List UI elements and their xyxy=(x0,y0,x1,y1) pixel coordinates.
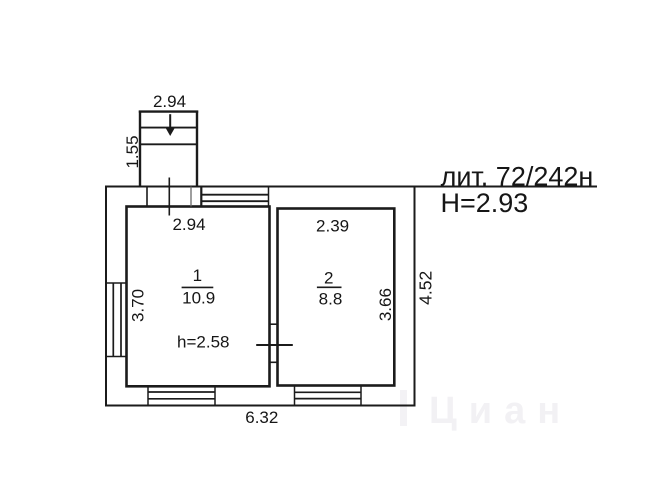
dimension 2.94 (room 1 width) xyxy=(172,215,205,234)
svg-text:8.8: 8.8 xyxy=(319,290,343,309)
window W3 in bottom wall under room 1: side edges xyxy=(148,386,215,405)
svg-text:2.94: 2.94 xyxy=(172,215,205,234)
svg-text:2.39: 2.39 xyxy=(316,216,349,235)
room 1 fraction line xyxy=(182,286,214,288)
window W4 in bottom wall under room 2: side edges xyxy=(295,386,362,406)
dimension 6.32 (building width) xyxy=(245,408,278,427)
room 2 number xyxy=(324,269,333,288)
outer wall top line with title underline extension xyxy=(105,186,597,188)
svg-text:Циан: Циан xyxy=(429,390,572,432)
entry direction arrow xyxy=(166,114,175,136)
title: ceiling height H=2.93 xyxy=(441,188,529,218)
svg-text:10.9: 10.9 xyxy=(182,288,215,307)
outer wall left xyxy=(105,186,107,407)
porch top wall xyxy=(139,110,198,112)
svg-text:2.94: 2.94 xyxy=(153,92,186,111)
porch left wall xyxy=(139,111,141,187)
interior door opening in partition: jamb tick top xyxy=(270,323,278,325)
room 2 walls xyxy=(278,209,395,386)
svg-text:h=2.58: h=2.58 xyxy=(177,333,229,352)
dimension 1.55 (porch depth, rotated) xyxy=(123,135,142,168)
svg-text:4.52: 4.52 xyxy=(416,271,436,305)
porch right wall xyxy=(196,111,198,187)
svg-text:1: 1 xyxy=(193,266,202,285)
dimension 4.52 (building depth, rotated) xyxy=(416,271,436,305)
window W1 in top wall: left edge xyxy=(200,187,202,207)
window W1 in top wall: right edge xyxy=(268,187,270,207)
interior door opening in partition: jamb tick bottom xyxy=(270,361,278,363)
svg-text:1.55: 1.55 xyxy=(123,135,142,168)
window W2 in left wall: top edge xyxy=(106,282,126,284)
svg-text:3.70: 3.70 xyxy=(129,289,148,322)
room 2 area 8.8 xyxy=(319,290,343,309)
window W2 in left wall: bottom edge xyxy=(106,356,126,358)
room 1 area 10.9 xyxy=(182,288,215,307)
svg-text:Н=2.93: Н=2.93 xyxy=(441,188,529,218)
outer wall bottom xyxy=(105,405,416,407)
window W2 in left wall: glazing lines xyxy=(113,283,121,357)
watermark Cian xyxy=(429,390,572,432)
entrance door opening line across top wall xyxy=(168,178,170,216)
window W3 glazing lines xyxy=(148,392,215,399)
room 1 height note h=2.58 xyxy=(177,333,229,352)
svg-text:2: 2 xyxy=(324,269,333,288)
watermark logo bar xyxy=(400,390,407,426)
outer wall right xyxy=(414,187,416,407)
svg-text:6.32: 6.32 xyxy=(245,408,278,427)
dimension 3.66 (room 2 depth, rotated) xyxy=(376,288,395,321)
porch step line 1 xyxy=(140,127,197,129)
room 1 walls xyxy=(127,207,270,387)
window W4 glazing lines xyxy=(295,392,362,398)
window W1 in top wall: glazing lines xyxy=(201,195,268,202)
dimension 3.70 (room 1 depth, rotated) xyxy=(129,289,148,322)
dimension 2.39 (room 2 width) xyxy=(316,216,349,235)
top wall jamb line B (faint) xyxy=(190,187,192,207)
title: liter 72/242n xyxy=(441,161,594,191)
room 2 fraction line xyxy=(317,286,342,288)
dimension 2.94 (porch width) xyxy=(153,92,186,111)
porch step line 2 xyxy=(140,143,197,145)
svg-text:лит. 72/242н: лит. 72/242н xyxy=(441,161,594,191)
interior door leaf line across partition xyxy=(256,344,293,346)
top wall jamb line A xyxy=(146,187,148,207)
room 1 number xyxy=(193,266,202,285)
svg-text:3.66: 3.66 xyxy=(376,288,395,321)
